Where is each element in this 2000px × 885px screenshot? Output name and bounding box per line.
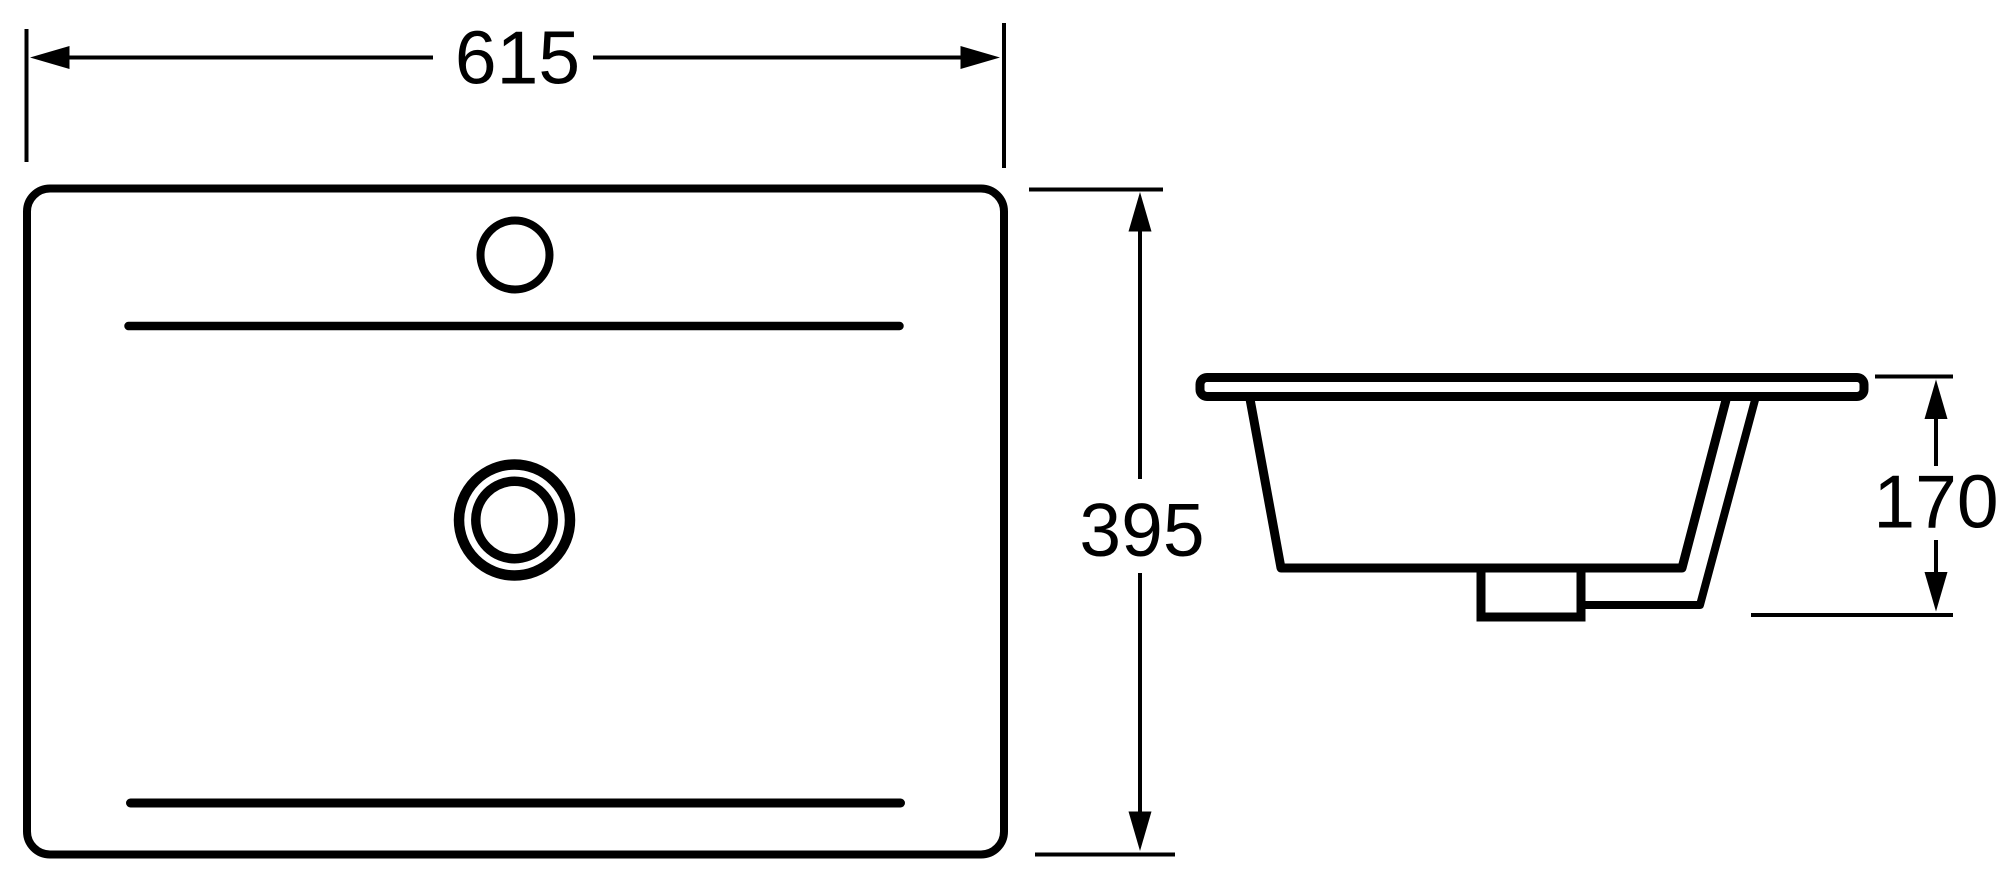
svg-text:395: 395 [1079, 488, 1204, 572]
svg-text:615: 615 [455, 16, 580, 100]
svg-text:170: 170 [1873, 460, 1998, 544]
